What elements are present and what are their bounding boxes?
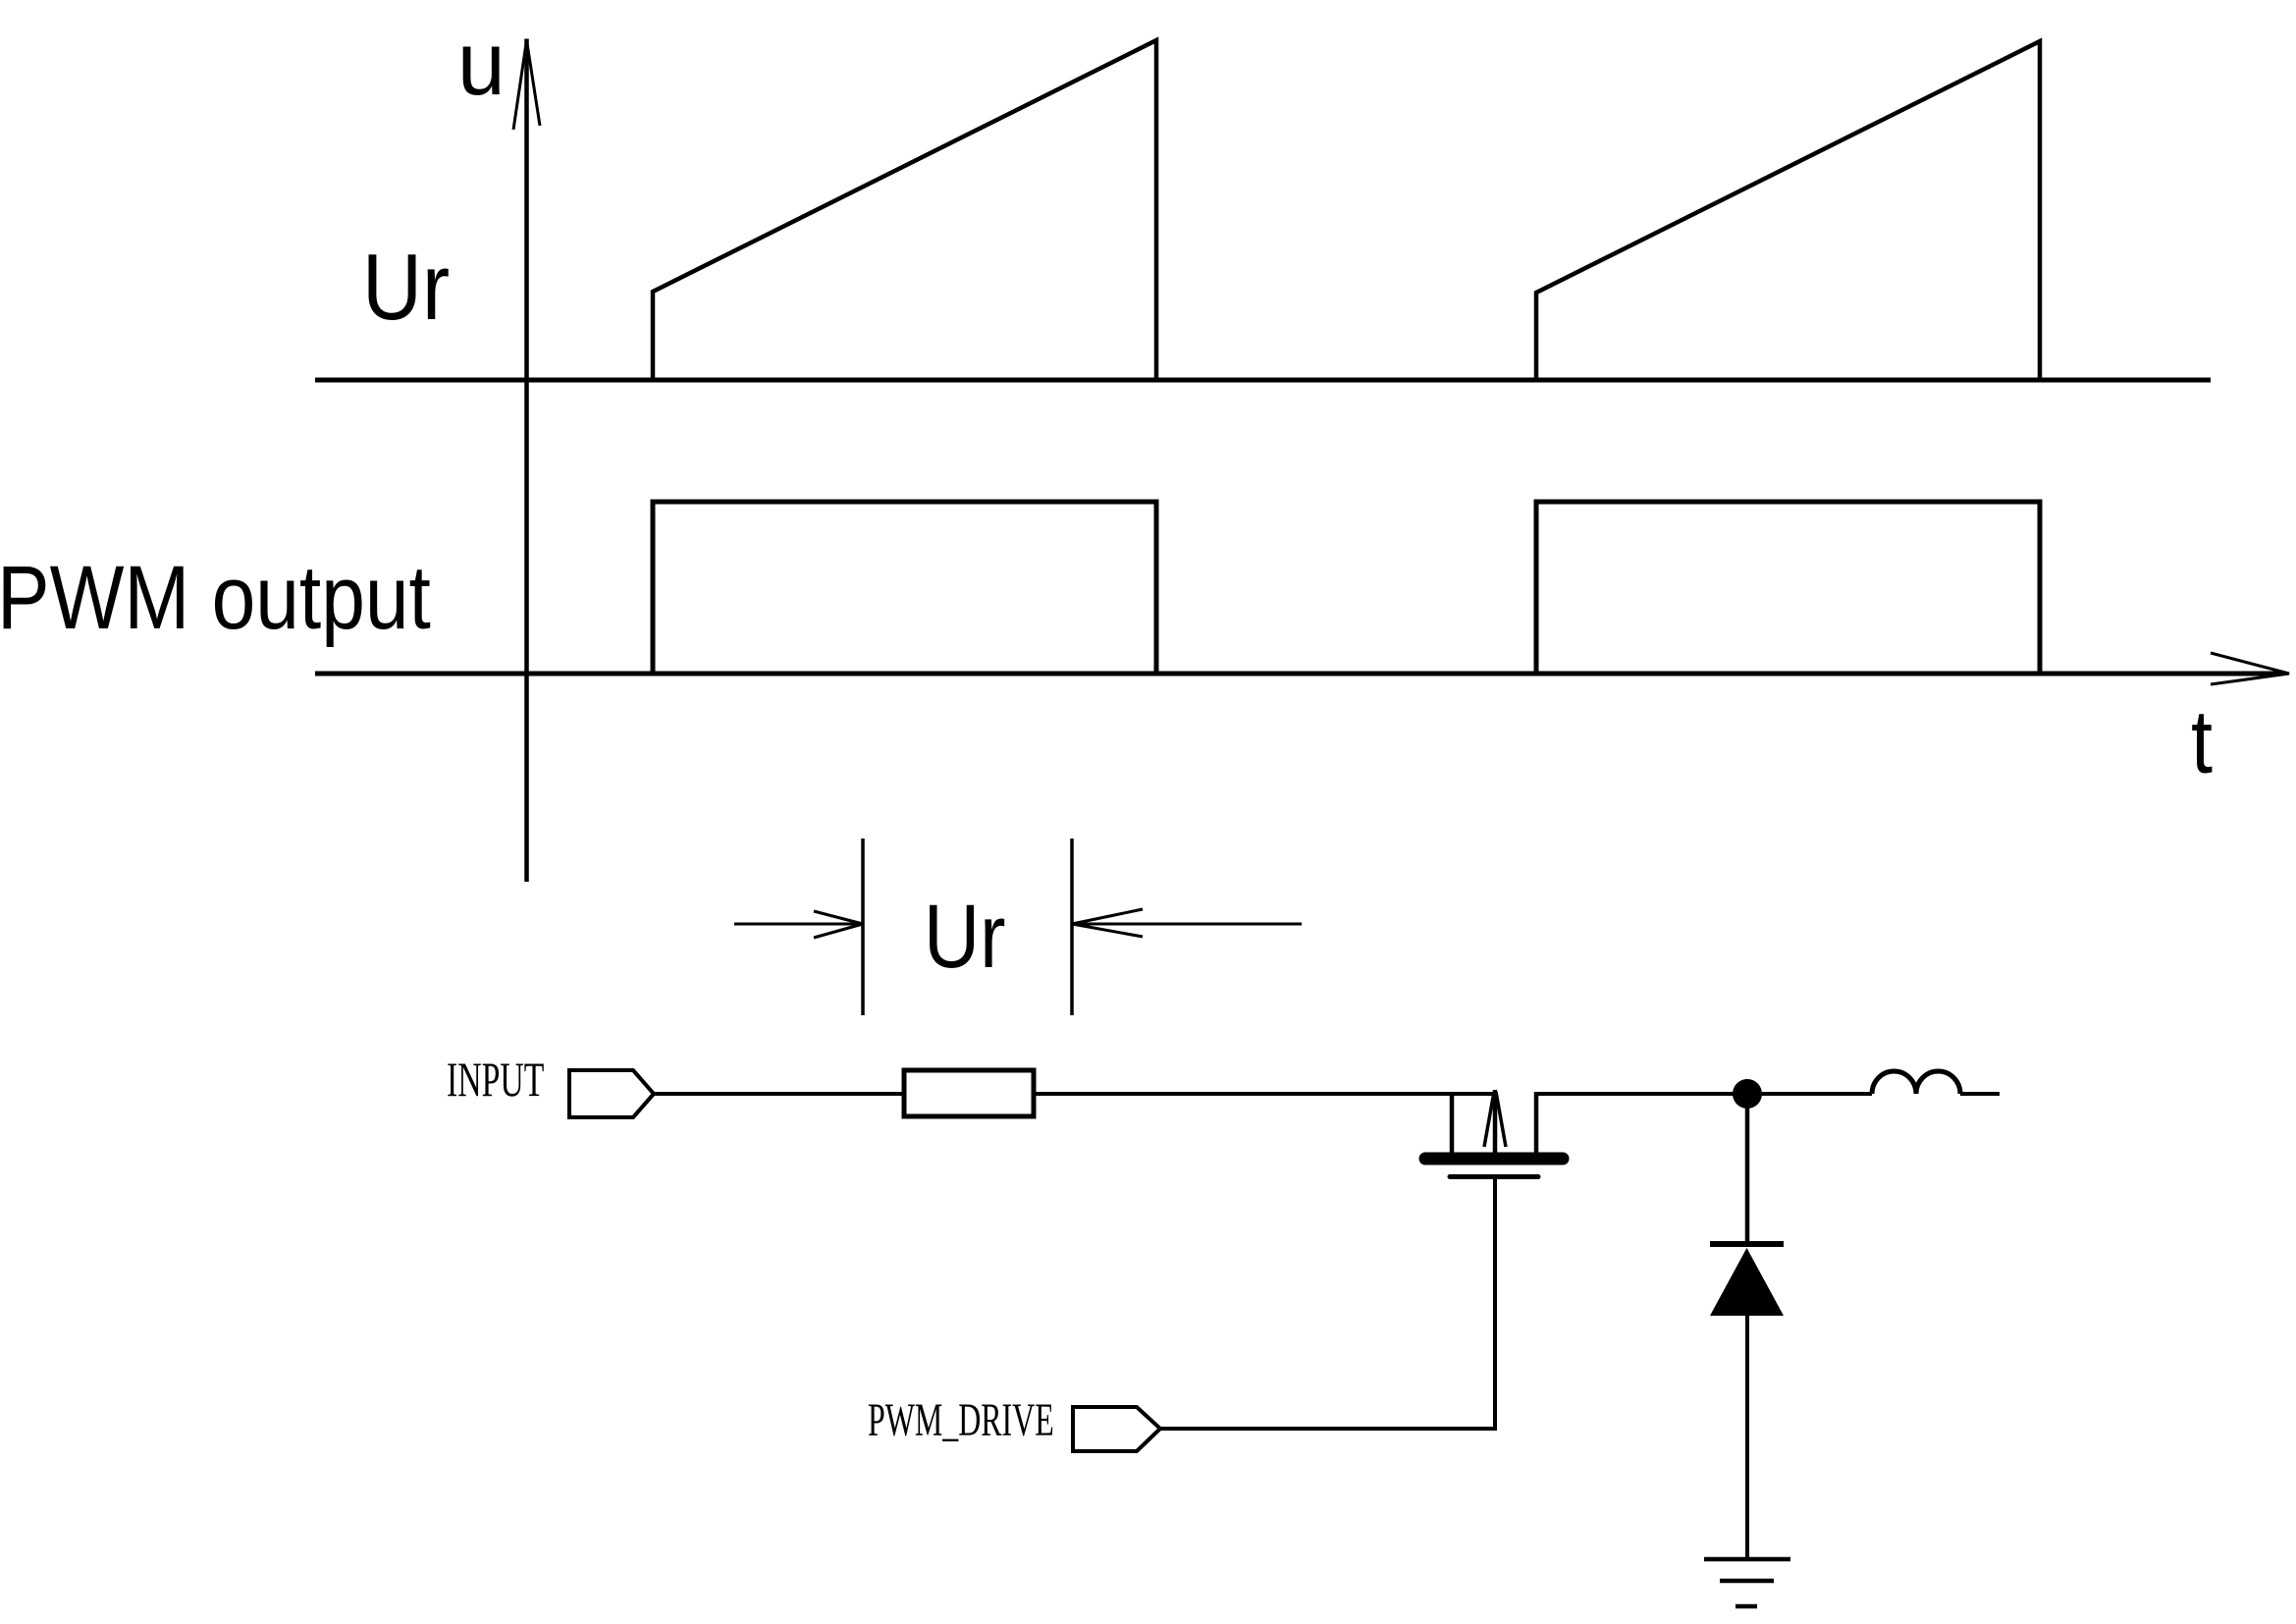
- resistor R1: [904, 1070, 1034, 1116]
- svg-text:t: t: [2191, 691, 2213, 792]
- wire MOSFET drain to output node: [1536, 1092, 1747, 1096]
- svg-text:Ur: Ur: [362, 235, 450, 340]
- sawtooth waveform period 1: [653, 40, 1156, 380]
- t axis arrowhead: [2211, 653, 2289, 684]
- wire node to diode: [1745, 1094, 1750, 1244]
- MOSFET Q1: [1425, 1090, 1563, 1177]
- diode D1 triangle: [1710, 1248, 1784, 1316]
- dimension tick left: [861, 839, 865, 1015]
- wire INPUT to resistor: [654, 1092, 904, 1096]
- time axis 2 (baseline of PWM output): [315, 672, 2283, 677]
- svg-text:INPUT: INPUT: [447, 1054, 544, 1108]
- svg-text:PWM_DRIVE: PWM_DRIVE: [868, 1394, 1054, 1446]
- dimension arrow left: [734, 911, 863, 938]
- output node junction dot: [1733, 1079, 1762, 1109]
- svg-text:u: u: [457, 14, 506, 115]
- inductor L1: [1872, 1071, 1960, 1094]
- u axis arrowhead: [513, 40, 540, 130]
- INPUT connector flag: [569, 1070, 654, 1117]
- PWM pulse 1: [653, 502, 1156, 674]
- PWM_DRIVE connector flag: [1073, 1407, 1160, 1451]
- svg-text:PWM output: PWM output: [0, 548, 431, 648]
- wire inductor to output: [1960, 1092, 2000, 1096]
- wire resistor to MOSFET source: [1034, 1092, 1495, 1096]
- svg-text:Ur: Ur: [924, 886, 1005, 987]
- wire diode to ground: [1745, 1316, 1749, 1559]
- sawtooth waveform period 2: [1536, 41, 2040, 380]
- dimension tick right: [1070, 839, 1074, 1015]
- gate wire to PWM_DRIVE: [1160, 1177, 1495, 1429]
- u axis (vertical): [524, 39, 529, 883]
- dimension arrow right: [1072, 909, 1302, 937]
- ground symbol: [1704, 1559, 1790, 1606]
- diode D1 cathode bar: [1710, 1241, 1784, 1247]
- time axis 1 (baseline of sawtooth): [315, 378, 2211, 383]
- wire node to inductor: [1747, 1092, 1872, 1096]
- PWM pulse 2: [1536, 502, 2040, 674]
